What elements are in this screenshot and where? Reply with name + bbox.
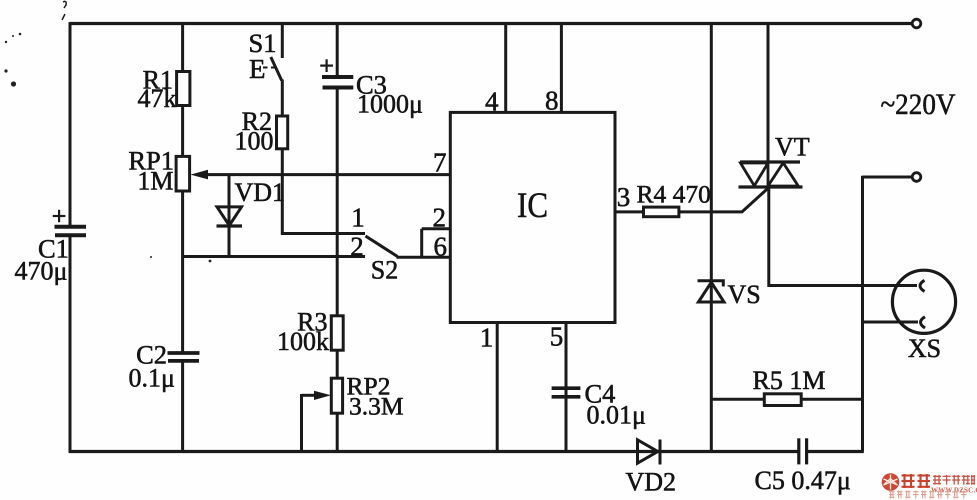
svg-text:0.1μ: 0.1μ	[129, 364, 175, 393]
label C3 polarity +	[320, 59, 333, 72]
svg-text:8: 8	[545, 86, 559, 116]
potentiometer RP1	[176, 156, 208, 191]
svg-text:VT: VT	[775, 133, 810, 162]
wire: lower AC terminal to right vertical rail	[863, 176, 913, 452]
wire: S2 throw 2	[183, 255, 365, 258]
op-amp U1: IC block	[450, 112, 615, 322]
svg-text:47k: 47k	[138, 84, 177, 113]
svg-text:3: 3	[617, 182, 631, 212]
wire: C3 bottom to R3	[336, 88, 339, 317]
label C4 0.01μ	[585, 379, 646, 430]
wire: RP1 wiper to IC pin 7	[200, 173, 450, 176]
label R1 47k	[138, 66, 177, 114]
watermark logo	[882, 473, 900, 491]
socket XS	[892, 270, 955, 333]
resistor R1	[177, 72, 190, 106]
svg-text:IC: IC	[517, 185, 548, 225]
svg-text:5: 5	[550, 322, 564, 352]
wire: IC pin 4	[504, 24, 507, 113]
capacitor C4	[552, 388, 581, 397]
wire: left rail lower segment	[69, 235, 72, 452]
terminal: lower AC terminal	[912, 173, 921, 182]
capacitor C2	[168, 353, 200, 361]
wire: RP2 wiper to bottom rail	[302, 394, 316, 452]
svg-text:VD2: VD2	[626, 468, 677, 497]
svg-text:100k: 100k	[277, 327, 329, 356]
label R3 100k	[277, 308, 329, 357]
wire: S2 common to IC pins 2 and 6	[397, 229, 451, 258]
capacitor C5	[799, 438, 807, 464]
wire: R4 to triac gate	[679, 188, 769, 212]
wire: C2 to bottom rail	[181, 361, 184, 452]
resistor R5	[764, 394, 801, 406]
capacitor C3	[322, 77, 353, 88]
svg-text:7: 7	[433, 148, 447, 178]
svg-text:1M: 1M	[137, 167, 173, 196]
wire: top supply rail	[70, 22, 912, 25]
svg-text:4: 4	[485, 87, 499, 117]
svg-text:E: E	[249, 54, 266, 84]
wire: RP1 bottom to C2	[181, 191, 184, 353]
label C3 1000μ	[356, 70, 423, 119]
wire: R3 to RP2	[336, 350, 339, 378]
wire: RP2 to bottom rail	[336, 413, 339, 451]
diode VD1	[217, 175, 243, 257]
wire: left rail upper segment	[69, 22, 72, 226]
capacitor C1	[55, 227, 87, 236]
label R2 100	[235, 107, 274, 156]
svg-text:3.3M: 3.3M	[349, 392, 404, 421]
wire: S1 to R2	[281, 80, 284, 117]
svg-text:2: 2	[350, 232, 364, 262]
resistor R2	[277, 116, 288, 149]
switch S1	[263, 24, 282, 81]
diode VD2	[638, 440, 661, 465]
label C1 polarity +	[53, 210, 66, 222]
wire: IC pin 5 to bottom rail	[565, 323, 568, 452]
terminal: upper AC terminal	[912, 19, 921, 28]
wire: R1 to RP1	[181, 106, 184, 157]
svg-text:R5 1M: R5 1M	[753, 366, 826, 395]
svg-text:WWW.DZSC.COM: WWW.DZSC.COM	[931, 486, 977, 494]
wire: IC pin 8	[560, 24, 563, 113]
wire: triac column top	[767, 24, 770, 164]
svg-text:XS: XS	[908, 334, 941, 363]
label C1 470μ	[15, 234, 69, 286]
svg-text:~220V: ~220V	[881, 89, 956, 121]
wire: VS to bottom rail	[710, 302, 713, 452]
label S1 E	[249, 28, 277, 84]
svg-text:0.01μ: 0.01μ	[587, 401, 646, 430]
svg-text:100: 100	[235, 127, 274, 156]
wire: R2 bottom to S2 throw 1	[281, 149, 365, 235]
watermark text	[889, 474, 977, 498]
svg-text:1: 1	[480, 323, 494, 353]
wire: triac MT2 down and to socket upper pin	[769, 187, 917, 286]
wire: R5 left lead	[711, 398, 764, 401]
wire: IC pin 1 to bottom rail	[496, 323, 499, 452]
svg-text:6: 6	[434, 232, 448, 262]
svg-text:1: 1	[351, 203, 365, 233]
wire: IC pin 3 to R4	[615, 210, 644, 213]
resistor R4	[644, 207, 679, 217]
svg-text:VD1: VD1	[235, 178, 286, 207]
transistor VT: triac	[739, 162, 803, 187]
wire: bottom rail	[69, 450, 864, 453]
wire: R1 column top	[181, 24, 184, 73]
resistor R3	[331, 316, 343, 350]
label RP1 1M	[128, 146, 174, 196]
svg-text:C5 0.47μ: C5 0.47μ	[755, 466, 851, 495]
label C2 0.1μ	[129, 340, 175, 393]
label RP2 3.3M	[347, 372, 404, 421]
switch S2 lever	[366, 236, 398, 257]
wire: C3 top	[336, 24, 339, 78]
svg-text:470μ: 470μ	[15, 257, 68, 286]
svg-text:2: 2	[433, 203, 447, 233]
wire: R5 right lead	[801, 398, 862, 401]
potentiometer RP2	[314, 378, 343, 413]
wire: socket lower pin feed	[863, 321, 919, 324]
svg-text:VS: VS	[728, 280, 761, 309]
diode VS	[698, 281, 725, 302]
svg-text:S2: S2	[371, 256, 398, 285]
wire: VS column top	[710, 24, 713, 303]
svg-text:R4 470: R4 470	[637, 180, 711, 209]
svg-text:1000μ: 1000μ	[357, 90, 423, 119]
